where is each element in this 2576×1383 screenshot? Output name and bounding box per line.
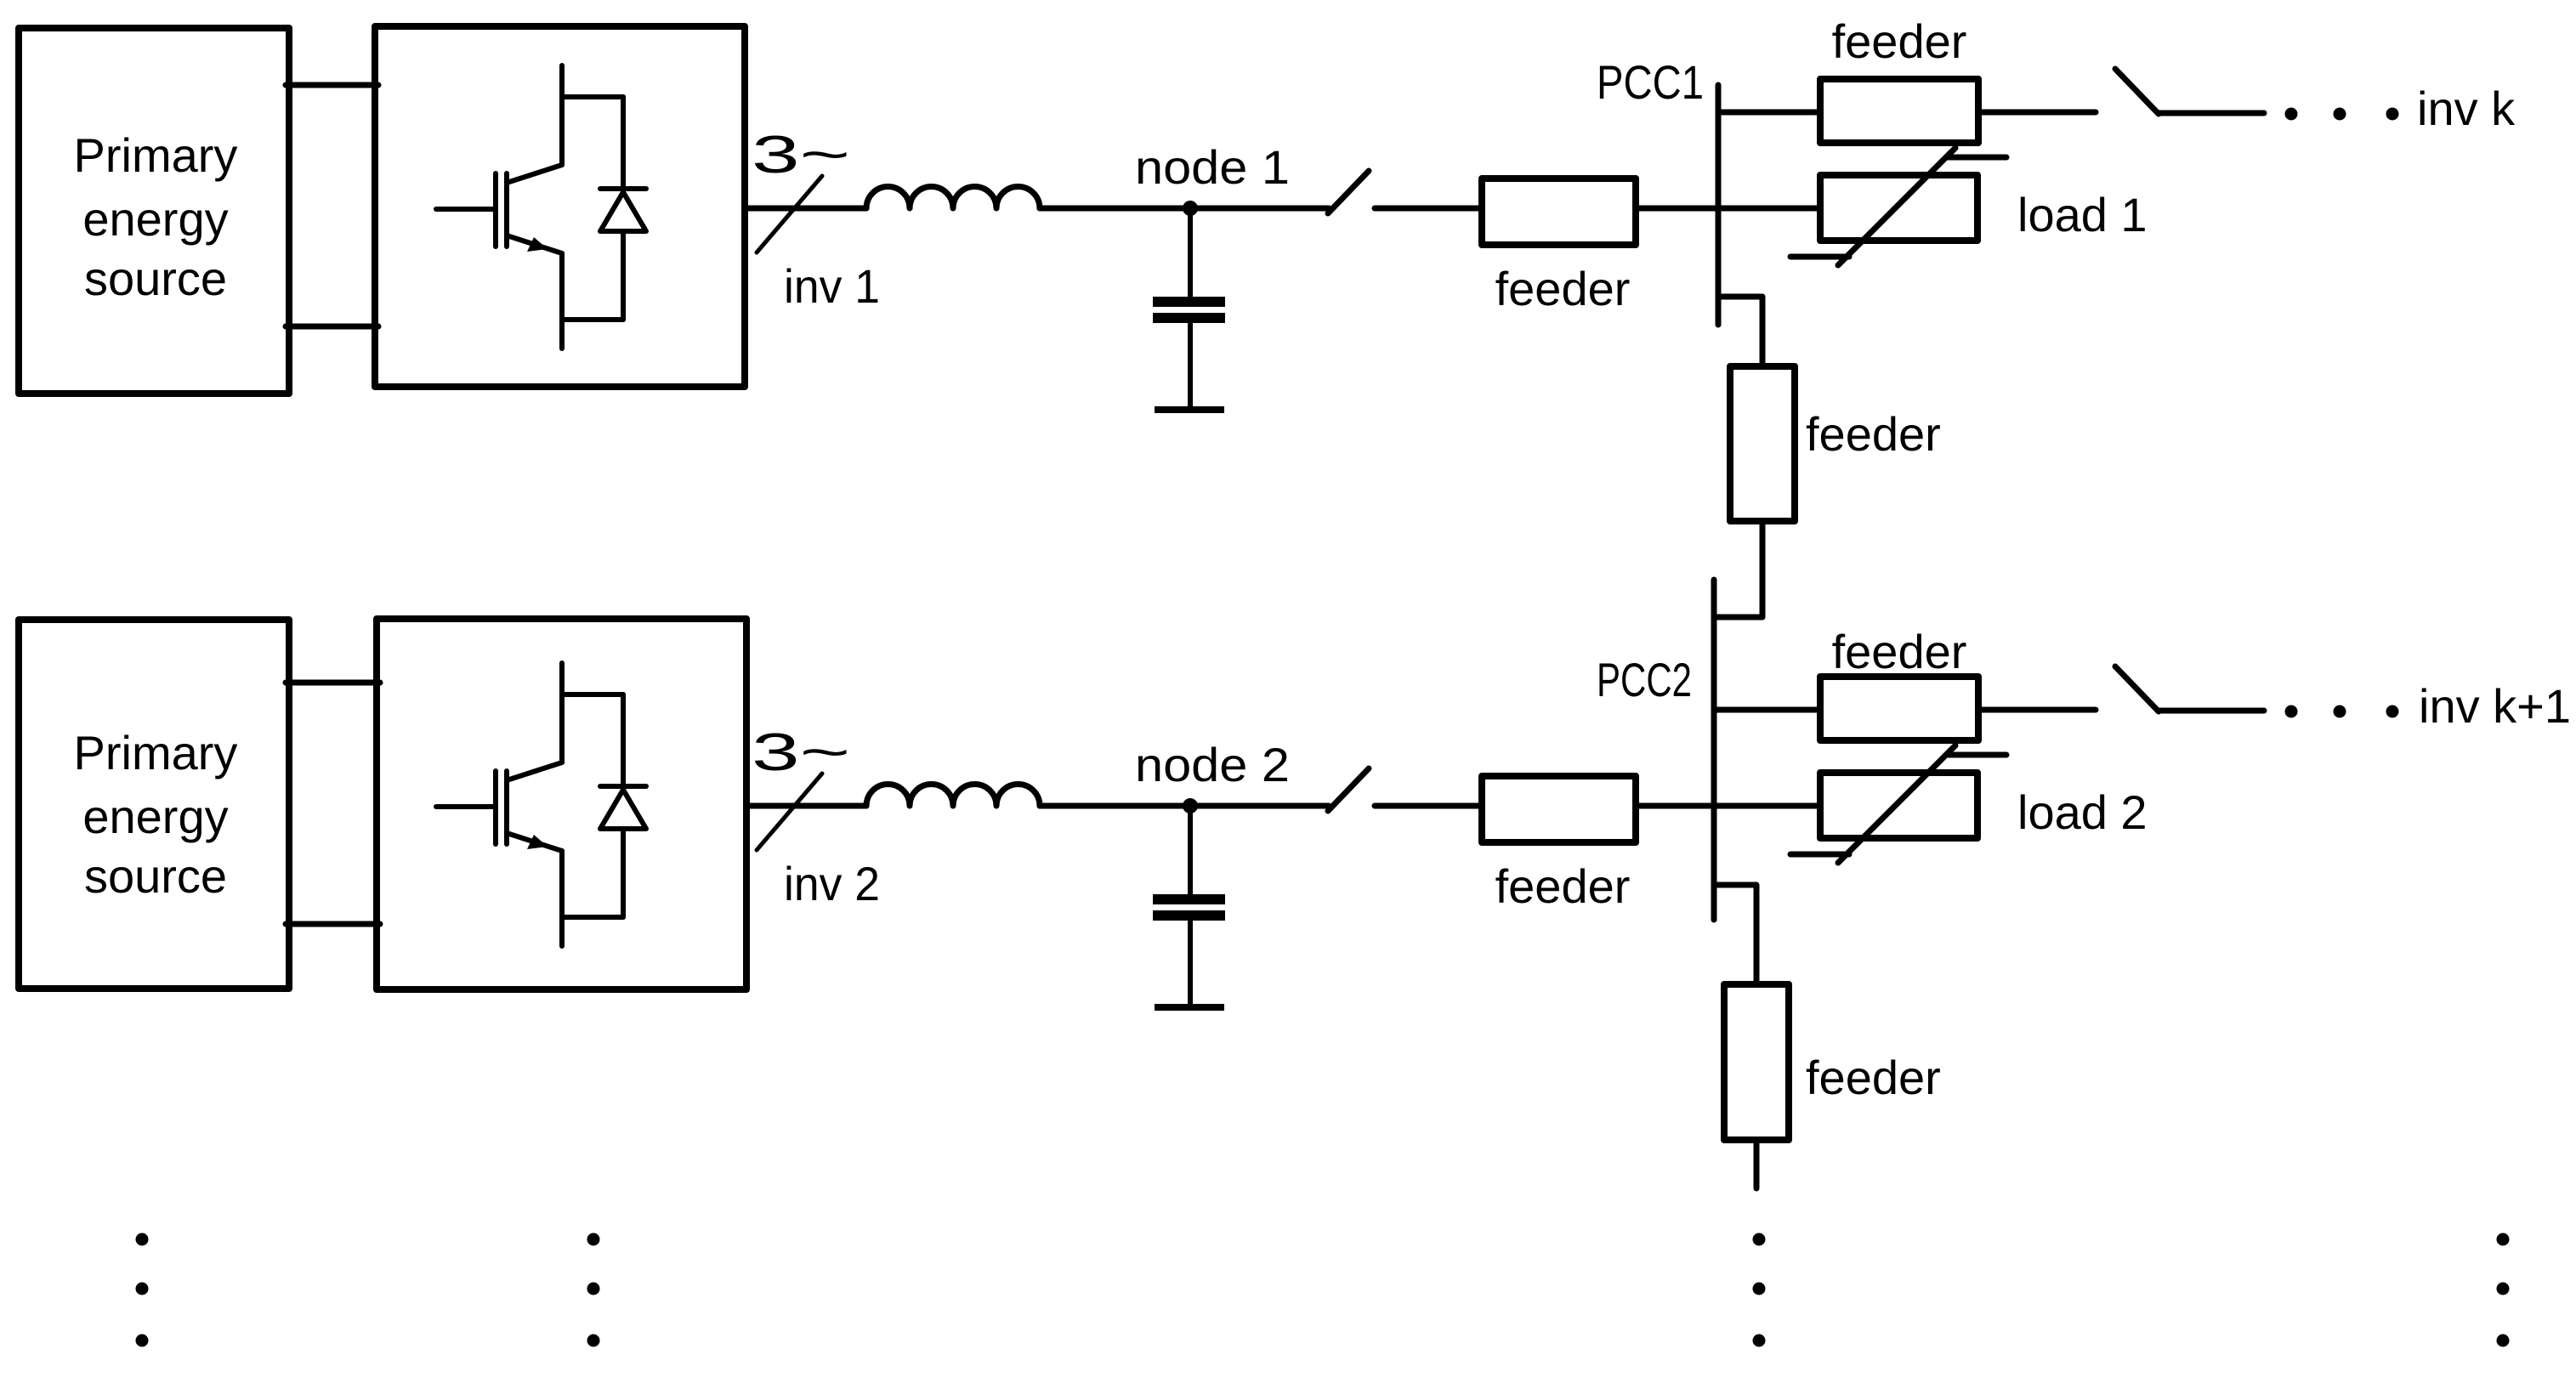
- svg-text:node 2: node 2: [1135, 738, 1290, 791]
- svg-text:energy: energy: [82, 192, 228, 246]
- wire feeder F5 to switch: [1978, 707, 2096, 713]
- svg-text:PCC1: PCC1: [1597, 55, 1704, 109]
- svg-text:feeder: feeder: [1832, 14, 1967, 68]
- svg-text:3~: 3~: [752, 126, 850, 184]
- switch S2 blade: [2115, 69, 2159, 114]
- ground 1: [1155, 406, 1224, 413]
- bus PCC1: [1716, 85, 1722, 325]
- wire switch to feeder 2: [1375, 803, 1482, 809]
- wire feeder F1 to PCC1 and load 1: [1636, 206, 1820, 212]
- svg-text:load 2: load 2: [2017, 785, 2148, 839]
- switch S3 blade: [1328, 768, 1369, 811]
- transistor Q2 IGBT: [436, 663, 562, 946]
- svg-text:feeder: feeder: [1806, 407, 1941, 461]
- svg-text:PCC2: PCC2: [1597, 653, 1692, 706]
- svg-text:3~: 3~: [752, 723, 850, 782]
- wire F3 to PCC2 jog: [1714, 521, 1762, 617]
- bottom ellipsis dots column 4: [2497, 1233, 2510, 1347]
- wire dc link top 1: [286, 82, 378, 88]
- svg-text:source: source: [84, 849, 227, 903]
- svg-text:energy: energy: [82, 790, 228, 843]
- switch S4 blade: [2115, 666, 2159, 711]
- wire PCC2 top branch: [1714, 707, 1820, 713]
- feeder F2 box (top): [1820, 79, 1978, 143]
- ground 2: [1155, 1004, 1224, 1011]
- node 2 junction dot: [1183, 798, 1198, 813]
- svg-text:inv k+1: inv k+1: [2419, 679, 2571, 733]
- svg-text:feeder: feeder: [1495, 859, 1631, 913]
- svg-text:inv 2: inv 2: [784, 857, 880, 910]
- wire feeder F2 to switch: [1978, 110, 2096, 116]
- feeder F6 box (vertical bottom): [1724, 984, 1789, 1140]
- wire PCC2 down jog: [1714, 885, 1756, 984]
- wire L2 to switch: [1040, 803, 1329, 809]
- svg-text:node 1: node 1: [1135, 140, 1290, 194]
- dots to inv k: [2285, 108, 2399, 121]
- three-phase slash 1: [757, 176, 822, 252]
- capacitor C2: [1153, 806, 1225, 1004]
- node 1 junction dot: [1183, 201, 1198, 216]
- transistor Q1 IGBT: [436, 65, 562, 349]
- svg-text:load 1: load 1: [2017, 188, 2148, 241]
- three-phase slash 2: [757, 774, 822, 850]
- svg-text:source: source: [84, 252, 227, 305]
- inverter U2 box: [377, 619, 746, 989]
- load 2 symbol: [1790, 745, 2006, 863]
- feeder F3 box (vertical chain): [1730, 366, 1795, 521]
- svg-text:feeder: feeder: [1495, 262, 1631, 315]
- svg-text:inv 1: inv 1: [784, 259, 880, 313]
- feeder F1 box (horizontal): [1482, 179, 1636, 245]
- capacitor C1: [1153, 208, 1225, 406]
- dots to inv k+1: [2285, 706, 2399, 718]
- wire switch S4 to dots: [2159, 708, 2264, 714]
- inverter U1 box: [375, 26, 745, 387]
- bottom ellipsis dots column 1: [136, 1233, 149, 1347]
- wire PCC1 top branch: [1718, 110, 1820, 116]
- svg-text:feeder: feeder: [1806, 1051, 1941, 1104]
- wire L1 to switch: [1040, 206, 1329, 212]
- wire switch S2 to dots: [2159, 111, 2264, 116]
- primary energy source box 1: [19, 28, 289, 394]
- wire dc link bottom 2: [286, 921, 380, 927]
- diode D1: [562, 97, 646, 320]
- wire dc link bottom 1: [286, 324, 378, 330]
- wire inverter 1 output: [745, 206, 866, 212]
- switch S1 blade: [1328, 171, 1369, 213]
- svg-text:Primary: Primary: [74, 128, 238, 182]
- wire feeder F4 to PCC2 and load 2: [1636, 803, 1820, 809]
- inductor L2: [866, 785, 1040, 807]
- feeder F4 box (horizontal row2): [1482, 776, 1636, 842]
- svg-text:inv k: inv k: [2417, 82, 2516, 135]
- bottom ellipsis dots column 2: [587, 1233, 600, 1347]
- bottom ellipsis dots column 3: [1753, 1233, 1766, 1347]
- diode D2: [562, 694, 646, 917]
- svg-text:Primary: Primary: [74, 726, 238, 779]
- wire PCC1 down jog: [1718, 297, 1762, 366]
- inductor L1: [866, 187, 1040, 209]
- wire dc link top 2: [286, 680, 380, 686]
- wire inverter 2 output: [746, 803, 866, 809]
- svg-text:feeder: feeder: [1832, 625, 1967, 678]
- feeder F5 box (top row2): [1820, 677, 1978, 740]
- bus PCC2: [1711, 580, 1717, 920]
- wire switch to feeder 1: [1375, 206, 1482, 212]
- wire F6 down stub: [1754, 1140, 1760, 1188]
- load 1 symbol: [1790, 148, 2006, 265]
- primary energy source box 2: [19, 620, 289, 989]
